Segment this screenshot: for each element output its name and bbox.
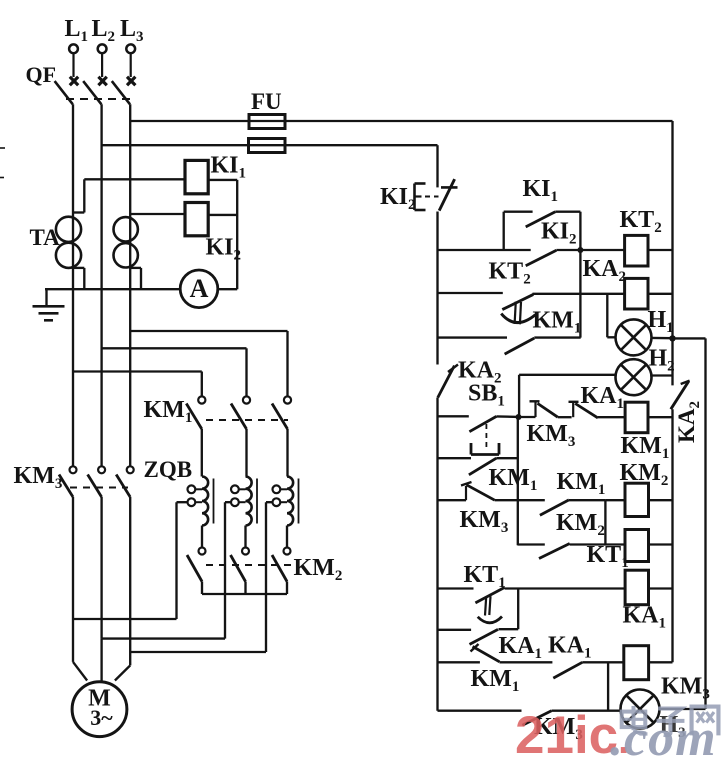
svg-text:QF: QF [26, 62, 57, 87]
svg-text:ZQB: ZQB [144, 457, 193, 482]
svg-text:A: A [190, 274, 209, 303]
svg-text:3~: 3~ [90, 705, 113, 730]
svg-text:TA: TA [30, 225, 61, 250]
svg-text:FU: FU [251, 89, 282, 114]
svg-text:.com: .com [610, 710, 717, 756]
